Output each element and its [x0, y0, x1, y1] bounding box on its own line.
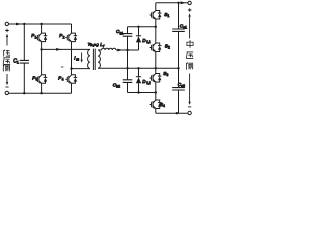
wire S2 emitter	[155, 55, 157, 68]
label + (MV)	[188, 8, 192, 12]
svg-text:2: 2	[63, 35, 65, 39]
node leg A bottom	[40, 92, 42, 94]
node N2 at switch leg	[155, 91, 157, 93]
hanzi 側 (MV)	[186, 63, 192, 70]
wire inductor to node	[116, 49, 139, 51]
wire S3 collector	[155, 68, 157, 70]
current arrowhead primary top	[56, 48, 62, 51]
svg-text:o2: o2	[181, 84, 185, 88]
node leg B tap	[70, 67, 72, 69]
svg-text:o1: o1	[183, 26, 187, 30]
node MV bottom rail	[176, 112, 178, 114]
wire N2 horizontal	[128, 92, 156, 94]
inductor Lr	[102, 48, 116, 50]
svg-text:b1: b1	[120, 31, 124, 35]
transistor P2	[65, 30, 77, 45]
wire S4 emitter	[155, 112, 157, 113]
wire leg B upper	[71, 24, 73, 30]
wire capacitor string vertical	[127, 27, 129, 93]
label minus (MV)	[188, 106, 191, 108]
node N2 at clamp diode	[137, 91, 139, 93]
node N1 at switch leg	[155, 26, 157, 28]
node AC2 at capacitor string	[126, 67, 128, 69]
wire S1 collector	[155, 3, 157, 7]
transistor P4	[65, 71, 77, 87]
wire leg B mid	[71, 45, 73, 71]
node AC2 at switch leg	[155, 67, 157, 69]
transistor S1	[150, 7, 162, 23]
svg-text:3: 3	[167, 73, 169, 77]
svg-text:4: 4	[163, 104, 165, 108]
svg-text:b2: b2	[116, 85, 120, 89]
wire input cap branch	[23, 24, 25, 93]
transistor S3	[150, 70, 162, 86]
LV voltage arrow up	[6, 36, 8, 45]
hanzi 低	[4, 50, 10, 57]
node AC2 at clamp branch	[137, 67, 139, 69]
wire S4 collector	[155, 93, 157, 97]
current arrowhead MV top rail	[181, 1, 186, 4]
capacitor Cb2	[123, 80, 133, 83]
svg-text:1: 1	[168, 14, 170, 18]
svg-text:3: 3	[36, 78, 38, 82]
transformer primary winding	[88, 49, 90, 68]
hanzi 压 (MV)	[186, 52, 193, 59]
wire output cap branch lower	[178, 68, 180, 113]
wire AC primary bottom	[72, 68, 90, 70]
terminal + (low-voltage side, top-left)	[5, 22, 8, 25]
svg-text:1: 1	[17, 61, 19, 65]
wire leg B lower	[71, 87, 73, 93]
hanzi 側 (LV)	[3, 65, 9, 72]
wire MV top rail	[156, 2, 188, 4]
label minus (LV)	[5, 86, 8, 88]
node N1 at clamp diode	[137, 26, 139, 28]
wire output cap branch upper	[178, 3, 180, 69]
transistor S2	[150, 40, 162, 56]
terminal + (medium-voltage side)	[188, 1, 191, 4]
wire S2 collector	[155, 27, 157, 40]
node leg A top	[40, 23, 42, 25]
magnetizing current arrow	[81, 53, 83, 61]
clamp diode D1,2	[138, 68, 140, 92]
wire S3 emitter	[155, 86, 157, 93]
transistor P3	[35, 71, 47, 87]
node leg A midpoint	[40, 48, 42, 50]
LV voltage arrow down	[6, 74, 8, 83]
node AC2 at output caps	[177, 67, 179, 69]
wire N1 horizontal	[128, 26, 156, 28]
svg-text:r: r	[103, 44, 105, 48]
svg-text:4: 4	[62, 78, 64, 82]
transistor S4	[150, 97, 162, 113]
current arrowhead on LV top rail	[16, 23, 22, 26]
svg-text:m: m	[76, 58, 79, 62]
current arrowhead secondary	[117, 49, 123, 52]
capacitor Co1	[172, 29, 185, 31]
hanzi 中	[187, 40, 193, 48]
hanzi 压 (LV)	[3, 58, 10, 65]
wire AC primary top	[42, 48, 90, 50]
wire S1 emitter to N1	[155, 23, 157, 27]
MV voltage arrow up	[189, 16, 191, 39]
wire leg A upper	[41, 24, 43, 30]
capacitor Cb1	[123, 34, 133, 37]
capacitor C1 (input)	[20, 60, 29, 63]
transformer core	[93, 49, 95, 70]
wire leg A lower	[41, 87, 43, 93]
node MV top rail	[177, 2, 179, 4]
wire top rail LV	[9, 23, 72, 25]
svg-text:): )	[98, 43, 99, 47]
terminal - (medium-voltage side)	[188, 111, 191, 114]
transistor P1	[35, 30, 47, 45]
wire bottom rail LV	[9, 92, 72, 94]
svg-text:1,2: 1,2	[146, 81, 151, 85]
tick minus primary	[61, 66, 63, 68]
node input cap bottom	[23, 92, 25, 94]
svg-text:1,1: 1,1	[146, 40, 151, 44]
MV voltage arrow down	[189, 74, 191, 103]
wire secondary bottom	[98, 67, 178, 69]
wire leg A mid	[41, 45, 43, 71]
clamp diode D1,1	[138, 27, 140, 50]
node input cap top	[23, 23, 25, 25]
svg-text:2: 2	[168, 46, 170, 50]
transformer secondary winding	[98, 50, 100, 68]
svg-text:1: 1	[35, 35, 37, 39]
capacitor Co2	[172, 88, 185, 90]
node AC1 mid capacitor string	[126, 49, 128, 51]
wire MV bottom rail	[156, 112, 188, 114]
wire secondary top	[98, 49, 101, 51]
label + (LV)	[5, 29, 9, 33]
terminal - (low-voltage side, bottom-left)	[5, 91, 8, 94]
